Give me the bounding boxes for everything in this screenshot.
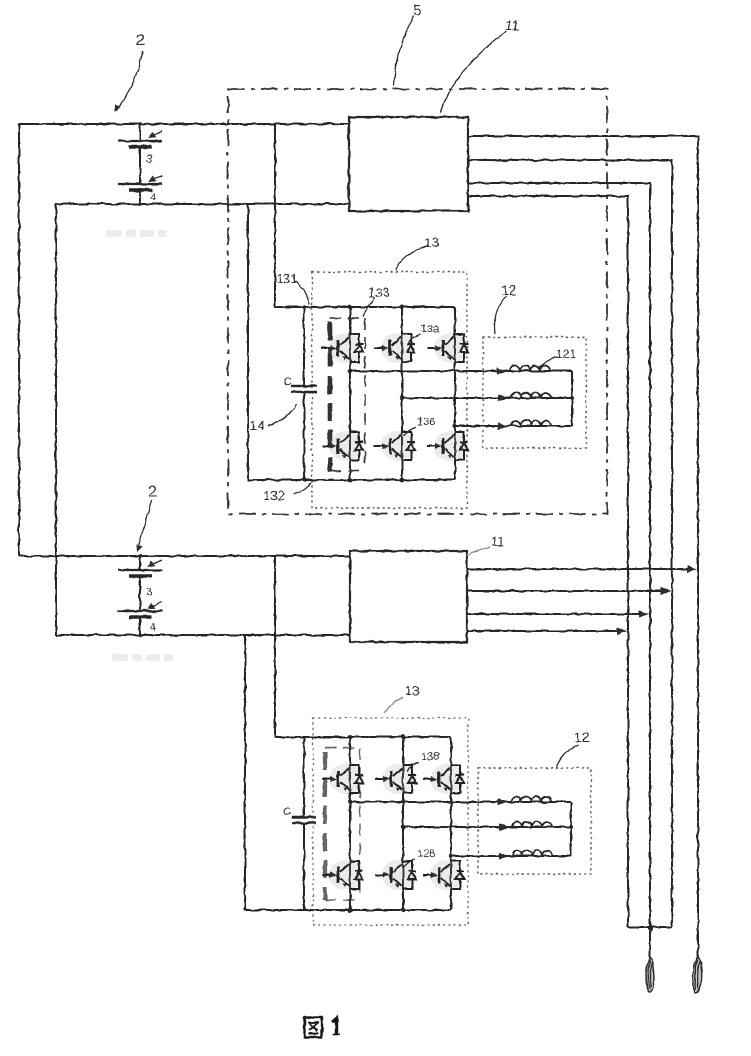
svg-text:14: 14 [250, 418, 264, 433]
transistor leg B low side lower inverter [375, 860, 416, 890]
battery 2 cell plate short 1 [129, 574, 152, 578]
transistor 126 leg A low side lower inverter [322, 860, 363, 890]
battery 2 wires [139, 556, 141, 635]
junction dot leg B bottom bus lower [401, 908, 406, 913]
leader for label 136 [404, 427, 416, 436]
wire rail1 battery1 positive [19, 123, 349, 125]
svg-text:11: 11 [505, 17, 520, 33]
dashed module boundary 133 lower top [325, 747, 360, 749]
battery 2 cell plate short 2 [129, 615, 152, 619]
dashed module boundary 133 lower bottom [325, 899, 360, 901]
dashed module boundary 133 upper top [330, 317, 365, 319]
battery 1 wires [139, 124, 141, 204]
leader for label 2 upper [117, 51, 142, 110]
wire motor neutral upper [571, 371, 573, 426]
winding phase B upper motor [511, 393, 551, 399]
leader for label 14 [268, 404, 297, 426]
leader for label 12 upper [494, 296, 506, 334]
arrow end of wire WD [617, 627, 627, 634]
junction dot leg A top bus upper [348, 305, 353, 310]
wire W3 from unit 11 [468, 183, 650, 958]
leader for label 138 [407, 762, 419, 771]
dashed module boundary 133 lower right [359, 748, 361, 900]
wire left vertical bus 2 [55, 204, 57, 635]
battery 1 cell 3 pointer arrow [150, 131, 163, 137]
battery 2 cell plate long 2 [118, 610, 162, 612]
wire inverter leg C upper [454, 307, 456, 480]
junction dot phase A node upper [348, 369, 353, 374]
dashed module boundary 133 upper bottom [330, 470, 365, 472]
wire rail3 battery2 positive [19, 555, 350, 557]
transistor leg B high side lower inverter [375, 764, 416, 794]
transistor 136 leg A low side upper inverter [322, 431, 363, 461]
junction dot phase B node lower [401, 825, 406, 830]
svg-text:136: 136 [417, 416, 435, 428]
svg-text:13: 13 [405, 683, 419, 698]
wire DC positive feed lower inverter [275, 556, 451, 737]
wire inverter leg B lower [402, 737, 404, 910]
wire inverter leg C lower [450, 737, 452, 910]
leader for label 13 upper [396, 247, 425, 270]
wire DC negative feed lower inverter [245, 635, 451, 910]
junction dot leg B top bus upper [400, 305, 405, 310]
junction dot leg B top bus lower [401, 735, 406, 740]
transistor leg C high side upper inverter [427, 333, 468, 363]
svg-text:11: 11 [491, 534, 505, 549]
transistor leg B low side upper inverter [374, 431, 415, 461]
junction dot plug tee [647, 925, 652, 930]
leader for label 11 lower [467, 547, 490, 556]
wire WC from lower unit 11 [467, 613, 644, 615]
svg-text:3: 3 [146, 586, 152, 598]
transistor leg C high side lower inverter [423, 764, 464, 794]
battery 2 cell plate long 1 [118, 569, 162, 571]
arrow on phase B lower motor [499, 823, 509, 830]
winding 121 phase A upper motor [510, 366, 550, 372]
capacitor C upper branch [303, 307, 305, 480]
capacitor C lower branch [303, 737, 305, 910]
wire rail2 battery1 negative [56, 203, 349, 205]
junction dot battery2 top [138, 554, 142, 558]
junction dot phase C node upper [453, 424, 457, 428]
transistor leg C low side lower inverter [423, 860, 464, 890]
svg-text:12: 12 [574, 729, 590, 745]
svg-text:4: 4 [150, 622, 156, 633]
svg-text:4: 4 [150, 192, 156, 203]
battery 1 cell plate long 1 [118, 140, 162, 142]
dotted inverter enclosure box 13 [312, 272, 467, 508]
wire motor neutral lower [570, 802, 572, 856]
capacitor C lower plates [292, 817, 316, 823]
svg-text:121: 121 [556, 347, 576, 361]
leader for label 12 lower [556, 745, 578, 769]
control unit box 11 [349, 117, 468, 211]
junction dot battery1 top [138, 122, 142, 126]
wire phase C to motor upper [455, 425, 572, 427]
wire phase A to motor lower [350, 801, 571, 803]
junction dot cap top upper [302, 305, 306, 309]
wire left vertical bus 1 [18, 124, 20, 556]
junction dot leg A top bus lower [348, 735, 353, 740]
arrow end of wire WA [687, 565, 697, 572]
leader for label 131 [295, 281, 309, 304]
wire WB from lower unit 11 [467, 590, 666, 592]
junction dot neutral B upper [570, 396, 574, 400]
dashed module boundary 133 lower left zipper [323, 752, 327, 900]
svg-text:5: 5 [413, 2, 421, 19]
wire phase B to motor lower [403, 826, 571, 828]
winding phase C upper motor [511, 421, 551, 427]
battery 1 cell plate short 1 [129, 145, 152, 149]
svg-text:2: 2 [136, 32, 145, 49]
svg-text:C: C [284, 376, 292, 388]
leader for label 5 [394, 16, 414, 86]
wire W2 from unit 11 [468, 160, 672, 927]
arrow on phase A upper motor [497, 367, 507, 374]
arrow on phase C upper motor [498, 422, 508, 429]
svg-text:131: 131 [276, 271, 298, 286]
junction dot leg B bottom bus upper [400, 478, 405, 483]
leader for label 132 [294, 482, 311, 494]
junction dot battery1 bottom [138, 202, 142, 206]
connector plug P1 [646, 957, 654, 992]
battery 2 cell 4 pointer arrow [149, 602, 162, 608]
transistor leg C low side upper inverter [427, 431, 468, 461]
leader for label 133 [363, 297, 375, 316]
leader for label 13a [408, 334, 420, 343]
arrow on phase A lower motor [498, 798, 508, 805]
junction dot leg A bottom bus upper [348, 478, 353, 483]
transistor 138 leg A high side lower inverter [322, 764, 363, 794]
faint ghost text under battery 1 [106, 230, 122, 237]
wire phase A to motor upper [350, 370, 572, 372]
svg-text:132: 132 [263, 488, 285, 503]
transistor 13a leg A high side upper inverter [322, 333, 363, 363]
junction dot cap bottom upper [302, 478, 306, 482]
caption glyph tu of figure 1 [305, 1018, 323, 1038]
junction dot leg A bottom bus lower [348, 908, 353, 913]
junction dot battery2 bottom [138, 633, 142, 637]
dotted inverter enclosure box 13 lower [313, 718, 468, 925]
wire U joint at bottom right [628, 926, 672, 928]
wire rail4 battery2 negative [56, 634, 350, 636]
junction dot phase B node upper [400, 396, 405, 401]
control unit box 11 lower [350, 551, 467, 642]
wire WA from lower unit 11 [467, 568, 692, 570]
svg-text:138: 138 [421, 751, 439, 763]
svg-text:3: 3 [146, 152, 153, 166]
connector plug P2 [693, 956, 702, 993]
dotted motor box 12 lower [478, 768, 591, 874]
wire inverter leg A upper [349, 307, 351, 480]
transistor leg B high side upper inverter [374, 333, 415, 363]
leader for label 2 lower [138, 500, 152, 549]
wire W4 from unit 11 [468, 196, 628, 927]
leader for label 121 upper [539, 357, 558, 368]
svg-text:12: 12 [501, 282, 517, 298]
svg-text:2: 2 [148, 484, 157, 501]
junction dot phase A node lower [348, 800, 353, 805]
leader for label 11 upper [440, 31, 506, 113]
wire WD from lower unit 11 [467, 630, 622, 632]
battery 1 cell plate short 2 [129, 188, 152, 192]
svg-text:133: 133 [368, 285, 390, 300]
junction dot phase C node lower [449, 854, 453, 858]
arrow end of wire WB [661, 587, 671, 594]
wire DC negative feed upper inverter [248, 204, 455, 480]
arrow on phase C lower motor [499, 852, 509, 859]
leader for label 126 [403, 859, 415, 868]
winding phase A lower motor [511, 797, 551, 803]
svg-text:13: 13 [424, 234, 440, 250]
dashed module boundary 133 upper left zipper [328, 322, 333, 472]
arrow on phase B upper motor [498, 394, 508, 401]
wire inverter leg A lower [349, 737, 351, 910]
capacitor C upper plates [291, 386, 317, 392]
wire phase C to motor lower [451, 855, 571, 857]
wire DC positive feed upper inverter [275, 124, 455, 307]
dash-dot enclosure box 5 [228, 89, 607, 514]
winding phase C lower motor [512, 851, 552, 857]
arrow end of wire WC [639, 610, 649, 617]
winding phase B lower motor [512, 822, 552, 828]
battery 2 cell 3 pointer arrow [149, 560, 162, 566]
wire W1 from unit 11 to right drop [468, 136, 698, 959]
svg-text:126: 126 [417, 848, 435, 860]
wire inverter leg B upper [401, 307, 403, 480]
battery 1 cell plate long 2 [118, 183, 162, 185]
dotted motor box 12 [483, 337, 586, 448]
caption numeral 1 [333, 1019, 337, 1035]
junction dot neutral B lower [569, 825, 573, 829]
wire phase B to motor upper [402, 397, 572, 399]
leader for label 13 lower [384, 697, 403, 713]
svg-text:C: C [283, 806, 291, 818]
faint ghost text under battery 2 [112, 654, 128, 661]
battery 1 cell 4 pointer arrow [150, 175, 163, 181]
svg-text:13a: 13a [421, 323, 440, 335]
dashed module boundary 133 upper right [364, 318, 366, 470]
